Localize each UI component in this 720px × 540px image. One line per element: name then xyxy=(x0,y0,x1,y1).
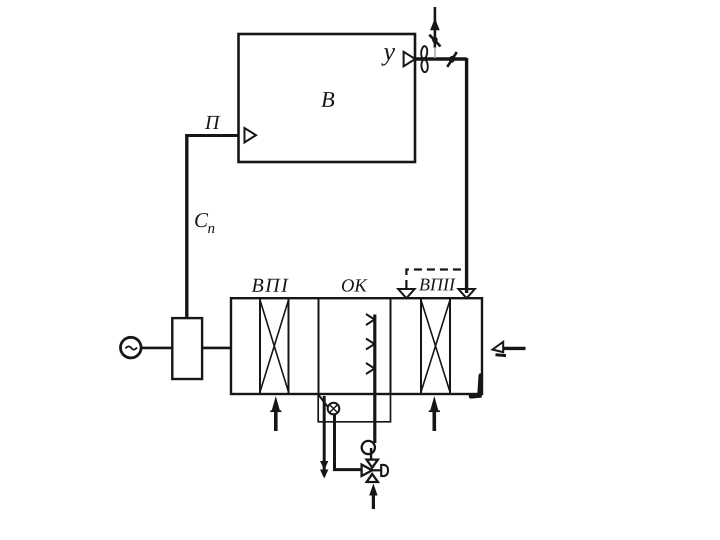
exhaust grille (triangle) xyxy=(404,52,416,67)
label ОК xyxy=(342,279,368,291)
sump tank under chamber xyxy=(318,394,390,422)
pump outlet line xyxy=(335,414,363,470)
spray nozzle 3 xyxy=(366,363,375,374)
dashed control line xyxy=(406,270,466,289)
pump suction diagonal xyxy=(319,395,328,407)
wire: supply duct horizontal into room xyxy=(187,134,239,137)
label ВПI xyxy=(252,279,289,292)
damper slash on recirculation duct xyxy=(447,52,457,67)
valve actuator circle xyxy=(362,441,375,454)
label Сп xyxy=(195,213,214,233)
thick stroke bottom-right corner xyxy=(471,376,481,397)
divider 3 xyxy=(318,298,320,394)
exhaust fan (figure-8 symbol) xyxy=(421,46,428,59)
wire motor to fan xyxy=(141,347,172,350)
fresh water arrow (up into valve) xyxy=(372,490,375,509)
hot water arrow into ВПII xyxy=(432,407,436,431)
divider 4 xyxy=(390,298,392,394)
divider 2 xyxy=(288,298,290,394)
pump circle with cross xyxy=(328,403,340,415)
spray nozzle 1 xyxy=(366,314,375,325)
divider 6 xyxy=(449,298,451,394)
damper slash on outside branch xyxy=(429,35,440,47)
supply fan box xyxy=(172,318,202,379)
label B xyxy=(321,92,334,107)
arrow to outside (up) xyxy=(431,20,439,30)
wire: recirculation duct vertical xyxy=(465,58,468,293)
valve actuator stem xyxy=(370,448,372,460)
divider 5 xyxy=(420,298,422,394)
hot water arrow into ВПI xyxy=(274,407,278,431)
fan motor circle with ~ xyxy=(121,337,142,358)
valve triangle (right, recirculation inlet) xyxy=(458,289,474,298)
wire: exhaust horizontal duct xyxy=(415,57,467,60)
spray pipe in chamber xyxy=(373,315,376,444)
drain line to sewer xyxy=(323,396,326,476)
spray nozzle 2 xyxy=(366,339,375,350)
label П xyxy=(205,116,221,129)
room box B xyxy=(239,34,416,162)
wire fan to AHU xyxy=(202,347,231,350)
wire: supply duct vertical xyxy=(185,134,188,319)
valve triangle (left, over ОК/ВПII boundary) xyxy=(398,289,414,298)
drain double arrowhead xyxy=(320,461,328,470)
three-way valve xyxy=(362,465,373,476)
heater ВПI cross xyxy=(260,300,289,392)
divider 1 xyxy=(259,298,261,394)
fresh air arrow (right, pointing left) xyxy=(493,342,504,352)
AHU main casing xyxy=(231,298,482,394)
exhaust grille label У xyxy=(381,48,395,66)
label ВПII xyxy=(419,279,456,291)
supply air grille (triangle) xyxy=(245,128,257,142)
heater ВПII cross xyxy=(421,300,450,392)
wire: exhaust-to-outside vertical branch xyxy=(434,7,437,48)
